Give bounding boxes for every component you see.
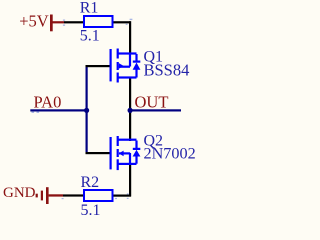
channel bottom segment [117, 73, 119, 83]
body line with P arrow [119, 63, 124, 69]
power ground GND [3, 185, 63, 204]
channel top segment [117, 49, 119, 59]
body diode cathode bar [133, 148, 141, 150]
body line with N arrow [119, 151, 124, 157]
resistor R1 [84, 16, 113, 27]
body diode branch: top lead [135, 54, 137, 61]
svg-text:5.1: 5.1 [80, 28, 100, 45]
source line top [118, 52, 137, 54]
gate bar [110, 49, 112, 81]
drain line bottom [118, 76, 137, 78]
body diode cathode bar [133, 61, 141, 63]
channel middle segment [117, 149, 119, 157]
wire +5V trunk down to Q1 [129, 21, 131, 54]
drain line top [118, 139, 137, 141]
bar largest [46, 187, 49, 204]
resistor R2 [84, 190, 113, 201]
source line bottom [118, 163, 137, 165]
wire Q2 source down to R2 corner [129, 164, 131, 197]
resistor R2 pin 1 (left) [63, 194, 84, 196]
resistor R1 pin 2 (right) [113, 21, 131, 23]
junction OUT/trunk [128, 108, 133, 113]
wire OUT [130, 109, 181, 111]
junction PA0/gate [84, 108, 89, 113]
wire PA0 [30, 109, 87, 111]
body diode bottom lead [135, 70, 137, 78]
svg-text:BSS84: BSS84 [144, 61, 190, 80]
wire Q1 drain to junction to Q2 [129, 78, 131, 141]
svg-text:R1: R1 [80, 0, 99, 17]
wire gate net vertical [86, 65, 88, 154]
svg-text:5.1: 5.1 [81, 202, 101, 219]
svg-text:PA0: PA0 [34, 93, 62, 112]
compile marker specks [32, 19, 133, 200]
svg-text:OUT: OUT [135, 93, 169, 112]
wire corner to R2 pin 2 [113, 195, 131, 197]
svg-text:2N7002: 2N7002 [144, 145, 196, 163]
svg-text:+5V: +5V [19, 12, 49, 31]
body vertical to source [129, 153, 131, 165]
bar middle [41, 191, 43, 201]
svg-text:R2: R2 [81, 174, 100, 191]
gate bar [110, 137, 112, 169]
wire gate Q1 [86, 65, 111, 67]
svg-text:GND: GND [3, 185, 36, 201]
body diode triangle [133, 63, 141, 70]
channel bottom segment [117, 159, 119, 170]
power port +5V [19, 12, 64, 32]
body diode branch: top lead [135, 141, 137, 149]
channel top segment [117, 136, 119, 146]
channel middle segment [117, 62, 119, 70]
resistor R1 pin 1 (left) [64, 21, 83, 23]
body diode bottom lead [135, 156, 137, 164]
gnd lead [49, 194, 63, 196]
transistor Q1 BSS84 (P-MOSFET) [110, 49, 141, 83]
body vertical to source [129, 54, 131, 67]
bar smallest [36, 194, 38, 198]
wire gate Q2 [86, 152, 111, 154]
transistor Q2 2N7002 (N-MOSFET) [110, 136, 141, 170]
body diode triangle [133, 150, 141, 157]
